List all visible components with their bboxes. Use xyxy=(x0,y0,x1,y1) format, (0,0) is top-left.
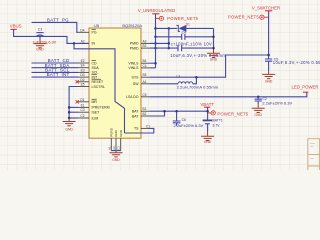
svg-text:2.2uH,700mA 0.55mm: 2.2uH,700mA 0.55mm xyxy=(177,85,219,90)
svg-text:VBUS: VBUS xyxy=(10,23,22,28)
svg-text:GND: GND xyxy=(114,129,118,137)
junction C4 row xyxy=(154,36,157,39)
svg-text:BAT: BAT xyxy=(132,110,139,114)
svg-text:V_SWITCHER: V_SWITCHER xyxy=(252,6,280,11)
junction ILIM xyxy=(68,117,71,120)
ground GND below LSCTRL strap xyxy=(68,118,70,122)
pin E1 IPRETERM xyxy=(78,106,89,108)
svg-text:L2: L2 xyxy=(177,74,181,78)
svg-text:LS/LDO: LS/LDO xyxy=(126,95,139,99)
svg-text:GND: GND xyxy=(36,48,44,52)
svg-text:B4: B4 xyxy=(143,59,147,63)
ground GND below C5 xyxy=(268,71,270,74)
pin A3 PGND (bottom) xyxy=(115,138,117,150)
pin E5 LSCTRL xyxy=(78,86,89,88)
svg-text:B2: B2 xyxy=(143,112,147,116)
svg-text:V_UNREGULATED: V_UNREGULATED xyxy=(138,8,175,13)
svg-text:INT: INT xyxy=(92,75,99,79)
svg-text:POWER_NET5: POWER_NET5 xyxy=(217,111,248,116)
pin D2 /RESET (no connect) xyxy=(78,81,89,83)
svg-text:VINLS: VINLS xyxy=(128,62,139,66)
svg-text:SDA: SDA xyxy=(92,66,100,70)
svg-text:PGND: PGND xyxy=(110,127,114,137)
wire C4 row xyxy=(156,36,182,38)
svg-text:2.2uF±20% 6.3V: 2.2uF±20% 6.3V xyxy=(262,100,292,105)
svg-text:E1: E1 xyxy=(81,103,85,107)
wire BATT_CD xyxy=(32,62,79,64)
svg-text:D1: D1 xyxy=(80,98,84,102)
svg-text:B1: B1 xyxy=(143,107,147,111)
svg-text:GND: GND xyxy=(210,58,218,62)
wire PMID A3 to rail xyxy=(150,42,169,44)
pin C5 LS/LDO xyxy=(141,96,150,98)
svg-text:E4: E4 xyxy=(81,64,85,68)
wire V_UNREGULATED vertical rail xyxy=(155,14,157,68)
svg-text:SW: SW xyxy=(133,82,139,86)
schematic sheet background xyxy=(0,0,320,170)
junction VBATT node xyxy=(206,110,209,113)
svg-text:C2: C2 xyxy=(80,114,84,118)
svg-text:A1: A1 xyxy=(107,146,111,150)
title block fragment (bottom-right) xyxy=(308,139,320,170)
svg-text:C1: C1 xyxy=(146,124,150,128)
sheet grid xyxy=(0,0,320,170)
svg-text:POWER_NET5: POWER_NET5 xyxy=(228,15,259,20)
junction C6 tap xyxy=(175,110,178,113)
wire BATT_SDA xyxy=(32,67,79,69)
svg-text:10uF,6.3V,+-20% 0.55mm: 10uF,6.3V,+-20% 0.55mm xyxy=(273,60,320,65)
svg-text:GND: GND xyxy=(254,113,262,117)
pin B2 BAT xyxy=(141,115,150,117)
pin C4 VINLS xyxy=(141,67,150,69)
wire C6 stub xyxy=(176,123,178,126)
svg-text:D2: D2 xyxy=(80,78,84,82)
svg-text:C6: C6 xyxy=(182,118,186,122)
svg-text:C5: C5 xyxy=(143,93,147,97)
wire BAT B2 joins B1 xyxy=(150,111,165,116)
pin E3 SCL xyxy=(78,71,89,73)
pin C2 ILIM xyxy=(78,117,89,119)
junction VINLS B4 xyxy=(154,62,157,64)
svg-text:VINLS: VINLS xyxy=(128,66,139,70)
junction tie D1 row xyxy=(168,27,171,30)
junction IN node xyxy=(73,42,76,45)
IC left pin names xyxy=(92,30,110,121)
svg-text:C3: C3 xyxy=(38,27,42,31)
wire BAT B1 row to battery xyxy=(150,110,208,112)
ground GND below IC xyxy=(115,151,117,153)
svg-text:PMID: PMID xyxy=(130,46,139,50)
pin C3 ISET xyxy=(78,111,89,113)
wire LS/LDO to LED_POWER xyxy=(150,92,307,97)
svg-text:BAT: BAT xyxy=(132,114,139,118)
pin E4 SDA xyxy=(78,67,89,69)
svg-text:GND: GND xyxy=(265,80,273,84)
svg-text:A3: A3 xyxy=(143,39,147,43)
svg-text:A4: A4 xyxy=(143,80,147,84)
IC bottom pin names PGND GND GND (rotated) xyxy=(110,127,123,137)
svg-text:GND: GND xyxy=(112,158,120,162)
pin D4 /PG xyxy=(78,31,89,33)
wire SW to L2 xyxy=(150,83,178,85)
wire VBATT stem xyxy=(207,107,209,120)
svg-text:C3: C3 xyxy=(117,146,121,150)
IC right pin names xyxy=(126,42,139,131)
pin B3 PMID xyxy=(141,47,150,49)
wire TS hook xyxy=(125,128,154,133)
svg-text:ISET: ISET xyxy=(92,111,101,115)
svg-text:100nF,±10% 10V: 100nF,±10% 10V xyxy=(175,42,212,47)
wire PMID B3 row through C7 xyxy=(150,47,178,49)
wire VBUS to IN xyxy=(14,29,89,43)
pin A3 PMID xyxy=(141,42,150,44)
svg-text:U5: U5 xyxy=(94,23,100,28)
pin E2 CD xyxy=(78,62,89,64)
svg-text:2.2uF±20% 6.3V: 2.2uF±20% 6.3V xyxy=(174,123,204,128)
wire BATT_INT xyxy=(32,76,79,78)
pin C3 GND (bottom) xyxy=(120,138,122,150)
svg-text:BQ25120A: BQ25120A xyxy=(122,23,142,28)
svg-text:PMID: PMID xyxy=(130,42,139,46)
svg-text:BATT1: BATT1 xyxy=(213,119,223,123)
junction C7 row right xyxy=(212,47,215,50)
wire BATT_SCL xyxy=(32,71,79,73)
pin C1 TS xyxy=(141,127,150,129)
ground GND below battery xyxy=(207,132,209,137)
junction tie A3 row xyxy=(168,42,171,45)
svg-text:MR: MR xyxy=(92,100,98,104)
wire SYS to V_SWITCHER xyxy=(150,55,268,77)
junction IPRETERM xyxy=(68,106,71,109)
capacitor C2 xyxy=(257,97,259,99)
ground GND below C2 xyxy=(257,104,259,108)
svg-text:IN: IN xyxy=(92,42,96,46)
wire C5 to ground xyxy=(268,61,270,71)
capacitor C5 xyxy=(265,59,272,61)
wire PGND/GND pins to ground xyxy=(111,150,120,152)
svg-text:POWER_NET5: POWER_NET5 xyxy=(167,16,198,21)
junction L2 to SYS xyxy=(195,76,198,79)
ground GND below C3 xyxy=(39,39,41,44)
wire to GND right of C7 xyxy=(213,28,215,49)
power net port POWER_NET5 at VBATT xyxy=(211,111,215,115)
junction BAT join xyxy=(163,110,166,113)
wire BATT_PG to PG pin xyxy=(32,22,79,32)
battery BATT1 xyxy=(203,119,213,121)
wire IN branch over IC to TS xyxy=(74,43,125,133)
svg-text:E3: E3 xyxy=(81,68,85,72)
svg-text:VBATT: VBATT xyxy=(200,102,214,107)
ground GND for D1 C4 C7 xyxy=(213,50,215,54)
svg-text:GND: GND xyxy=(204,140,212,144)
svg-text:IPRETERM: IPRETERM xyxy=(92,106,110,110)
pin B5 SYS xyxy=(141,76,150,78)
svg-text:ILIM: ILIM xyxy=(92,116,99,120)
wire L2 to SYS junction xyxy=(193,77,197,84)
junction PMID A3 xyxy=(154,42,157,45)
power net port POWER_NET5 at V_UNREGULATED xyxy=(159,16,163,20)
svg-text:BATT_INT: BATT_INT xyxy=(47,72,70,77)
svg-text:CD: CD xyxy=(92,61,98,65)
capacitor C6 xyxy=(176,111,178,121)
IC U5 BQ25120A body xyxy=(89,28,141,138)
svg-text:3.7V: 3.7V xyxy=(213,124,221,128)
svg-text:RESET: RESET xyxy=(92,80,105,84)
svg-text:D4: D4 xyxy=(80,28,84,32)
junction ISET xyxy=(68,111,71,114)
junction SYS to V_SWITCHER xyxy=(267,54,270,57)
wire LSCTRL to IPRETERM ISET ILIM xyxy=(69,87,78,119)
wire VINLS B4 to rail xyxy=(150,62,156,64)
svg-text:D1: D1 xyxy=(186,23,190,27)
svg-text:PG: PG xyxy=(92,31,97,35)
junction D1 row xyxy=(154,27,157,30)
pin D3 /INT xyxy=(78,76,89,78)
pin B1 BAT xyxy=(141,110,150,112)
svg-text:E2: E2 xyxy=(81,59,85,63)
svg-text:LSCTRL: LSCTRL xyxy=(92,85,105,89)
svg-text:C4: C4 xyxy=(143,64,147,68)
pin A1 PGND (bottom) xyxy=(110,138,112,150)
wire V_SWITCHER rail xyxy=(268,11,270,59)
svg-text:D3: D3 xyxy=(80,73,84,77)
svg-text:E5: E5 xyxy=(81,83,85,87)
svg-text:GND: GND xyxy=(65,128,73,132)
wire PMID tie vertical xyxy=(168,28,170,48)
svg-text:SCL: SCL xyxy=(92,71,99,75)
svg-text:TS: TS xyxy=(134,127,139,131)
svg-text:B3: B3 xyxy=(143,44,147,48)
junction C2 xyxy=(257,96,260,99)
diode D1 (schottky) xyxy=(177,25,180,31)
pin A2 IN xyxy=(78,42,89,44)
junction C4 row right xyxy=(212,36,215,39)
svg-text:C3: C3 xyxy=(80,108,84,112)
wire C2 to ground xyxy=(257,101,259,104)
junction PMID B3 xyxy=(154,47,157,50)
wire D1 row xyxy=(156,27,178,29)
svg-text:GND: GND xyxy=(119,129,123,136)
power net port POWER_NET5 at V_SWITCHER xyxy=(260,15,264,19)
svg-text:A3: A3 xyxy=(112,146,116,150)
junction tie B3 row xyxy=(168,47,171,50)
svg-text:SYS: SYS xyxy=(131,76,139,80)
pin D1 /MR (no connect) xyxy=(78,101,89,103)
svg-text:B5: B5 xyxy=(143,73,147,77)
wire VINLS C4 to rail xyxy=(150,67,156,69)
svg-text:A2: A2 xyxy=(81,39,85,43)
pin B4 VINLS xyxy=(141,62,150,64)
svg-text:LED_POWER: LED_POWER xyxy=(292,85,319,90)
wire battery to ground xyxy=(207,124,209,132)
pin A4 SW xyxy=(141,83,150,85)
